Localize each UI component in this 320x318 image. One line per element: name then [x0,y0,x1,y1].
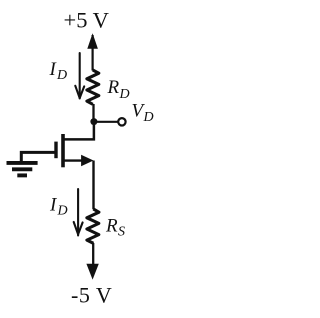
svg-text:+5 V: +5 V [64,8,109,33]
wire gate to ground [21,152,54,161]
current arrow I_D (bottom) [74,189,83,236]
svg-text:D: D [56,68,67,83]
wire node to V_D terminal [94,121,118,123]
terminal V_D (open circle) [118,118,125,125]
ground [7,163,38,176]
svg-text:R: R [107,77,120,98]
wire source down to R_S [92,161,94,210]
svg-text:D: D [119,87,130,102]
resistor R_S [87,209,99,243]
wire from +5V arrow to R_D [91,35,93,71]
svg-text:R: R [105,215,118,236]
svg-text:D: D [57,204,68,219]
current arrow I_D (top) [75,53,84,99]
supply arrow down (to -5V) [86,264,98,280]
svg-text:D: D [143,110,154,125]
transistor Q1 channel bar [61,134,65,167]
supply arrow up (to +5V) [87,33,98,49]
wire R_D to drain node [92,104,94,122]
resistor R_D [87,70,99,104]
transistor Q1 source wire with arrowhead [63,159,83,161]
node drain junction [90,118,97,125]
svg-text:-5 V: -5 V [71,283,112,308]
transistor Q1 gate bar [54,142,57,159]
wire drain: node down then left to channel [63,122,94,140]
wire R_S to -5V arrow [92,243,94,266]
svg-text:S: S [118,225,125,240]
